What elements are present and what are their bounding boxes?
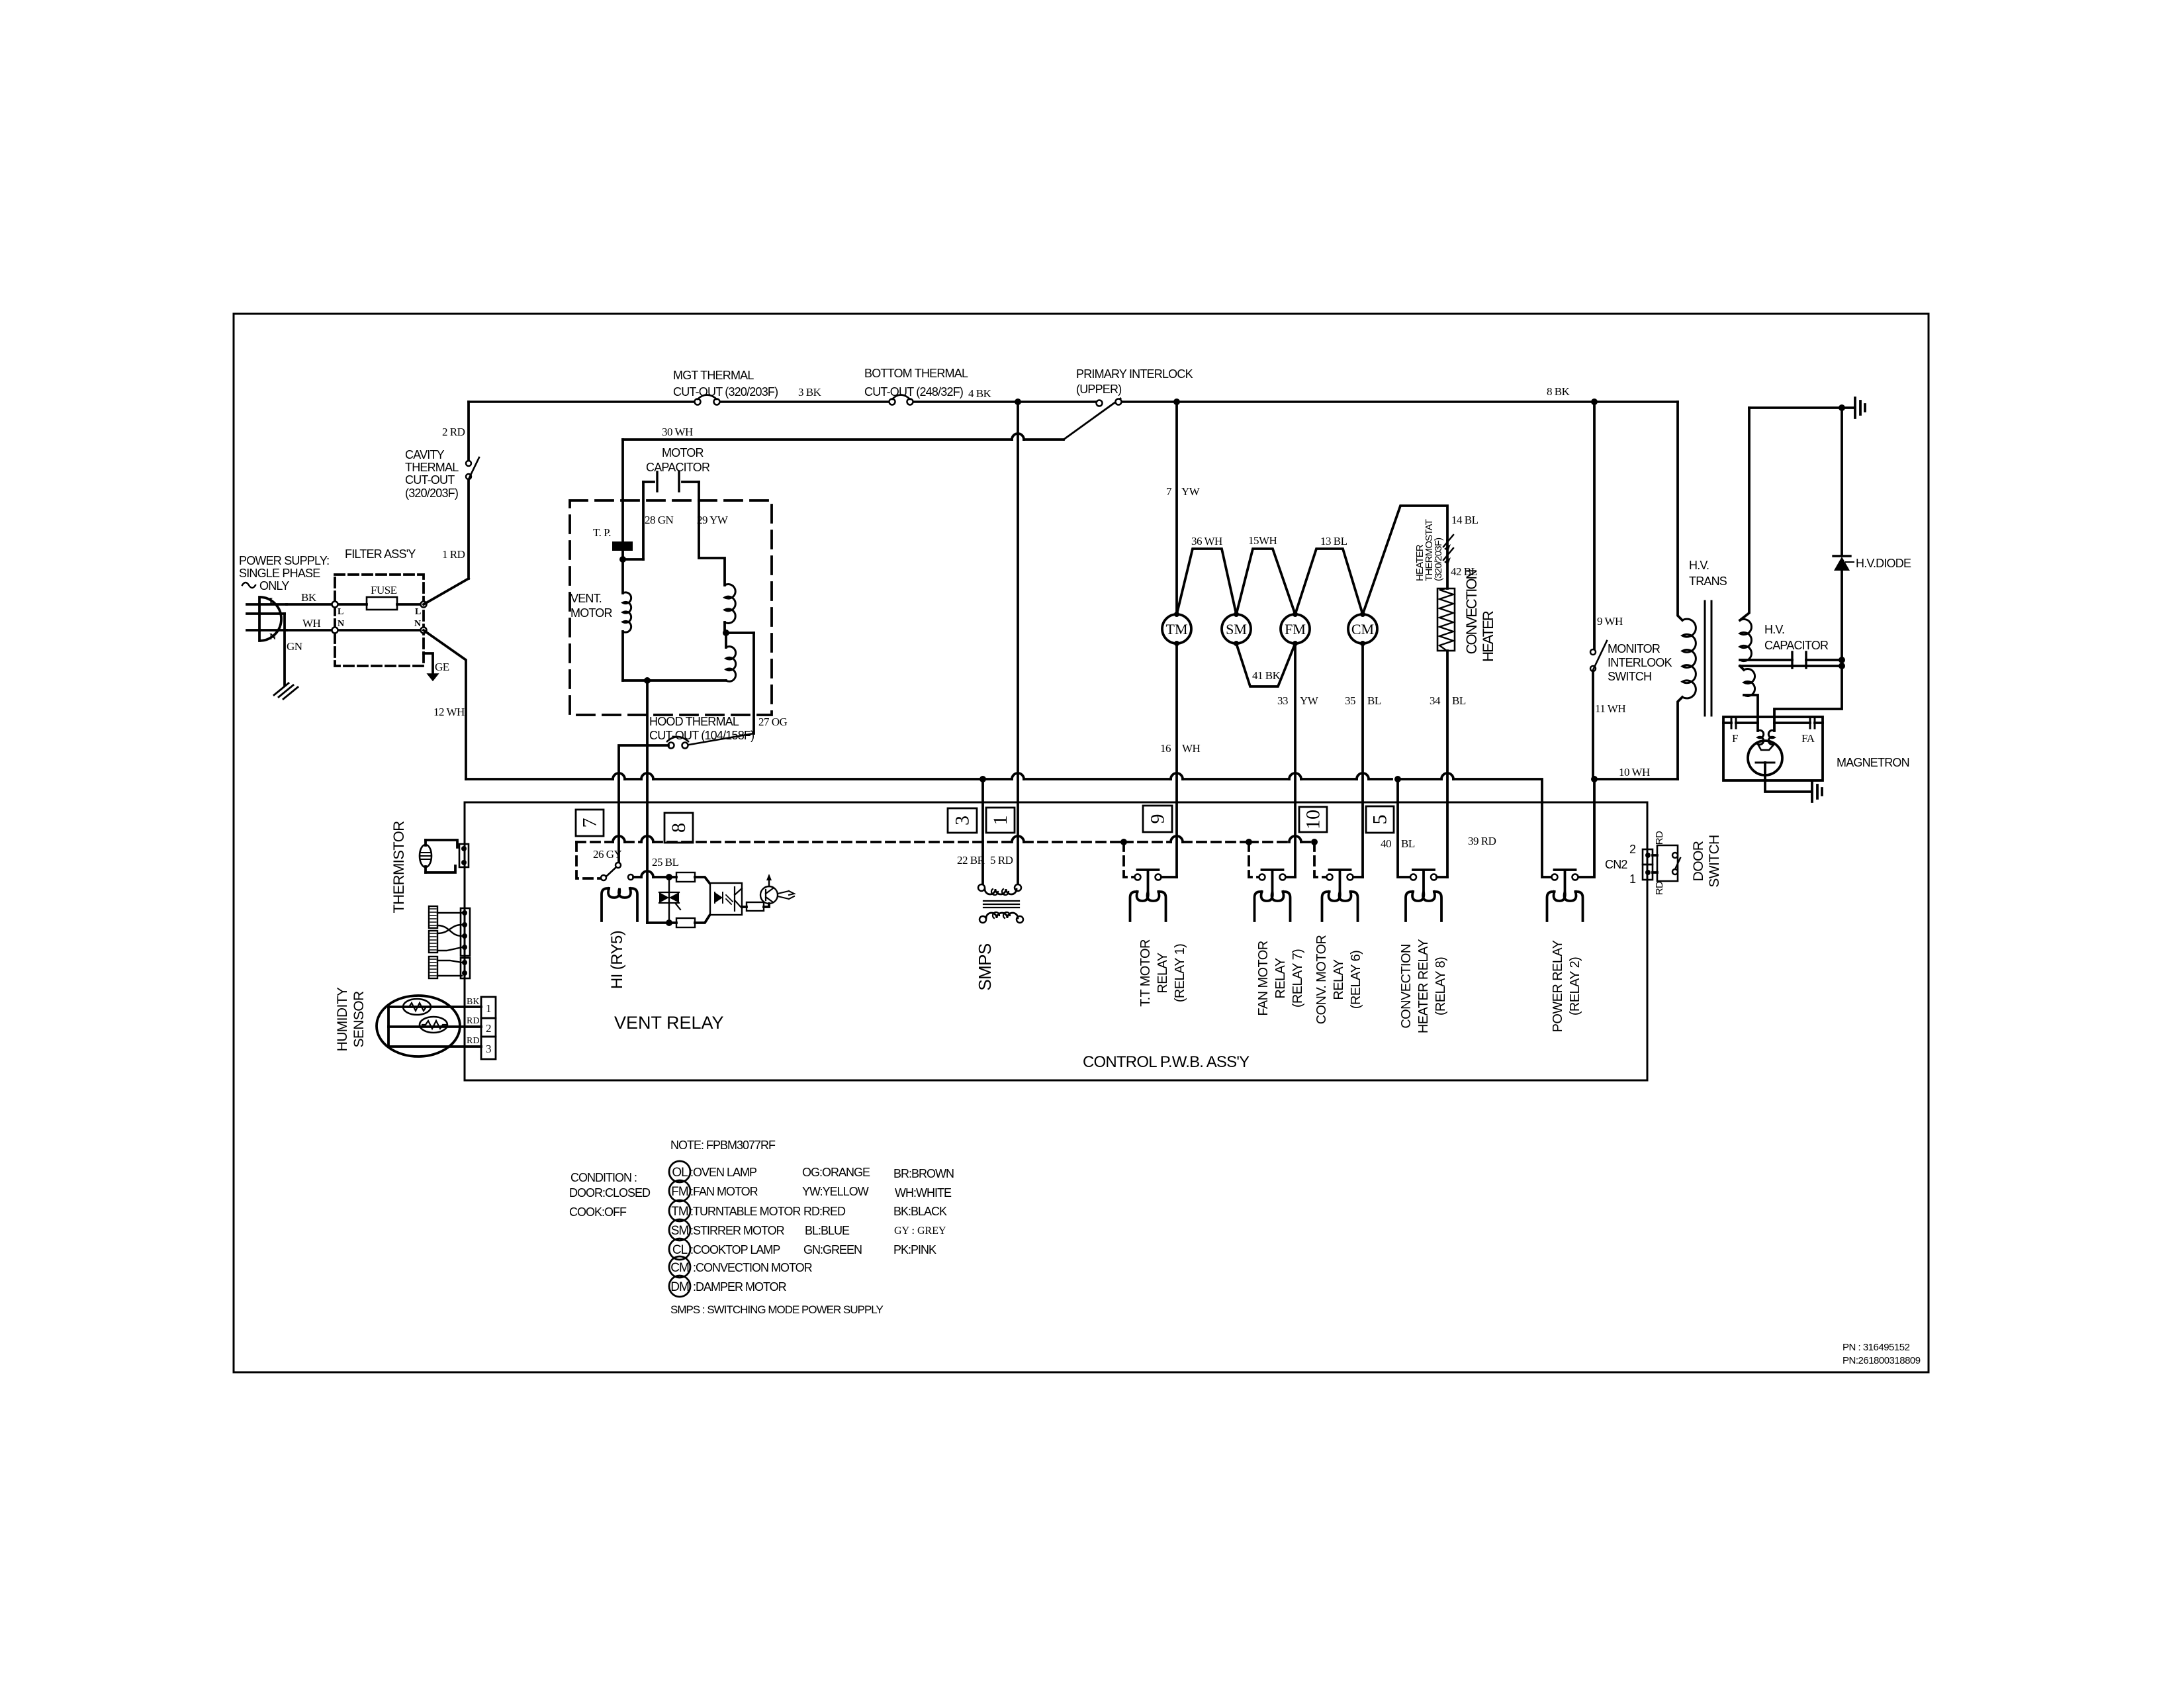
svg-text:DOOR: DOOR [1691,841,1706,881]
wire 5 RD [990,402,1018,884]
svg-text:25 BL: 25 BL [652,856,679,868]
thermistor RT1 [420,840,469,872]
legend condition [569,1171,651,1219]
connector box 1 [986,808,1015,833]
svg-text:CUT-OUT (320/203F): CUT-OUT (320/203F) [673,385,778,399]
svg-text::TURNTABLE MOTOR: :TURNTABLE MOTOR [690,1205,801,1218]
wire 15WH [1236,534,1295,614]
label 28 GN [645,514,674,526]
svg-text:PRIMARY INTERLOCK: PRIMARY INTERLOCK [1076,367,1193,381]
svg-text:(320/203F): (320/203F) [1433,538,1444,581]
legend SMPS [670,1303,883,1316]
svg-text:L: L [338,607,343,617]
connector box 5 [1366,806,1394,833]
svg-text:MONITOR: MONITOR [1608,642,1661,655]
svg-text:(RELAY 6): (RELAY 6) [1349,951,1363,1009]
svg-text:PK:PINK: PK:PINK [893,1243,936,1256]
svg-text:YW: YW [1181,485,1201,498]
svg-text:MGT THERMAL: MGT THERMAL [673,369,754,382]
svg-text:(UPPER): (UPPER) [1076,383,1121,396]
dashed branch 26GY [576,842,600,878]
svg-text:HEATER RELAY: HEATER RELAY [1416,939,1431,1033]
legend FM [669,1180,758,1201]
svg-text:H.V.DIODE: H.V.DIODE [1856,557,1911,570]
svg-text:THERMAL: THERMAL [405,461,459,474]
svg-text:36 WH: 36 WH [1191,535,1222,547]
wire 30 WH [623,426,1064,440]
fan motor relay [1255,870,1296,921]
svg-text:T.T MOTOR: T.T MOTOR [1138,939,1153,1007]
label SMPS [975,943,995,991]
svg-text:OG:ORANGE: OG:ORANGE [802,1166,870,1179]
label 1 RD [442,548,465,561]
vent motor dashed box [570,500,772,715]
svg-text:CUT-OUT (104/158F): CUT-OUT (104/158F) [649,729,754,742]
wire lower bus 1177 [466,773,1542,802]
svg-text:HEATER: HEATER [1480,611,1496,662]
svg-text::STIRRER MOTOR: :STIRRER MOTOR [690,1224,785,1237]
svg-text:29 YW: 29 YW [697,514,729,526]
svg-text:N: N [414,619,421,629]
convection heater relay [1406,870,1447,921]
svg-text:2: 2 [486,1022,491,1035]
svg-text:SM: SM [671,1224,689,1238]
wire 25 BL drop [652,856,679,868]
label MGT THERMAL CUT-OUT [673,369,778,399]
svg-text:3: 3 [952,816,974,825]
wire 2 RD riser [424,402,469,604]
wire WH plug to filter [287,617,335,630]
control PWB assy box [465,802,1647,1080]
svg-text:RD:RED: RD:RED [803,1205,846,1218]
svg-text:FM: FM [1285,621,1306,637]
wire 41 BK [1236,643,1295,686]
label H.V. CAPACITOR [1764,623,1829,652]
svg-text:(320/203F): (320/203F) [405,487,458,500]
svg-text:COOK:OFF: COOK:OFF [569,1205,627,1219]
svg-text::DAMPER MOTOR: :DAMPER MOTOR [690,1280,787,1293]
svg-text:FUSE: FUSE [371,584,397,596]
svg-text:RD: RD [467,1036,479,1046]
svg-text:CONVECTION: CONVECTION [1463,570,1480,655]
resistor R3 [742,902,769,911]
door switch [1653,831,1680,895]
svg-text:NOTE: FPBM3077RF: NOTE: FPBM3077RF [670,1139,776,1152]
wire 7 YW TM riser [1166,402,1201,614]
svg-text:2: 2 [1629,843,1636,856]
label FILTER ASSY [345,547,416,561]
node L right [415,602,427,618]
svg-text:5 RD: 5 RD [990,854,1013,867]
svg-text:7: 7 [1166,485,1172,498]
fuse F1 [335,584,424,610]
svg-text:F: F [1732,732,1738,745]
svg-text:SMPS : SWITCHING MODE POWER SU: SMPS : SWITCHING MODE POWER SUPPLY [670,1303,883,1316]
wire motor common [623,677,726,923]
svg-text:30 WH: 30 WH [662,426,693,438]
label 42 BL [1451,565,1478,578]
label VENT RELAY [614,1013,724,1033]
svg-text:GN: GN [287,640,302,653]
svg-text:16: 16 [1160,742,1171,755]
svg-text:3: 3 [486,1043,491,1055]
svg-text:BK: BK [467,997,479,1007]
wire 14 BL to heater [1363,506,1479,614]
svg-text:9 WH: 9 WH [1597,615,1623,628]
wire top bus 607 [469,400,1678,403]
label 3 BK [798,386,822,399]
wire 39 RD drop [1468,802,1551,877]
svg-text:VENT.: VENT. [570,592,602,605]
triac Q1 [659,877,680,923]
vent relay drive rail bottom [647,919,676,926]
svg-text:9: 9 [1147,814,1169,824]
humidity connector 1 2 3 [467,997,496,1059]
svg-text:ONLY: ONLY [259,579,289,592]
svg-text:CONVECTION: CONVECTION [1399,944,1414,1028]
svg-text:RD: RD [1654,881,1665,895]
svg-text:GY : GREY: GY : GREY [894,1225,946,1237]
label 4 BK [968,387,992,400]
dashed control bus [576,841,613,843]
label MOTOR CAPACITOR [646,446,710,474]
magnetron box [1723,717,1823,780]
svg-text:BL: BL [1452,694,1466,707]
connector CN2 [1605,843,1653,886]
svg-text:CL: CL [672,1243,688,1257]
monitor interlook switch [1590,641,1607,671]
wire 26 GY drop [593,848,622,861]
resistor R2 [676,915,709,927]
svg-text:GE: GE [435,661,449,673]
label H.V. TRANS [1689,559,1727,588]
svg-text:CONV. MOTOR: CONV. MOTOR [1314,935,1329,1025]
svg-text:3 BK: 3 BK [798,386,822,399]
TT motor relay contacts [1130,870,1177,921]
svg-text:BL: BL [1367,694,1381,707]
wire 16 WH TM drop [1160,643,1201,877]
hood thermal cut-out switch [619,733,754,863]
svg-text:T. P.: T. P. [593,526,611,539]
svg-text:34: 34 [1430,694,1441,707]
svg-text:POWER RELAY: POWER RELAY [1551,940,1565,1032]
node monitor branch [1591,399,1598,405]
wire GN to ground [285,614,302,685]
conv motor relay [1322,870,1363,921]
svg-text:TRANS: TRANS [1689,575,1727,588]
node TM top bus [1173,399,1180,405]
svg-text:BOTTOM THERMAL: BOTTOM THERMAL [864,367,968,380]
svg-text:(RELAY 1): (RELAY 1) [1173,944,1187,1002]
svg-text:12 WH: 12 WH [433,706,465,718]
ground GE [428,674,438,680]
svg-text:BK: BK [301,591,317,604]
optocoupler U2 [710,883,742,915]
svg-text:SINGLE PHASE: SINGLE PHASE [239,567,320,580]
svg-text:33: 33 [1277,694,1288,707]
svg-text:SWITCH: SWITCH [1608,670,1651,683]
svg-text:INTERLOOK: INTERLOOK [1608,656,1672,669]
label 34 BL [1430,694,1466,707]
svg-text:PN:261800318809: PN:261800318809 [1843,1355,1921,1366]
svg-text:BR:BROWN: BR:BROWN [893,1167,954,1180]
label CONVECTION HEATER RELAY [1399,939,1448,1033]
legend OL [669,1161,757,1182]
node N left [332,619,345,633]
svg-text:TM: TM [671,1205,688,1219]
svg-text:YW:YELLOW: YW:YELLOW [802,1185,869,1198]
dashed branch relay1 [1124,842,1133,877]
node 5RD top [1015,399,1021,405]
vent relay drive rail top [628,871,676,880]
svg-text:HI (RY5): HI (RY5) [608,931,626,989]
transistor Q2 [760,874,794,904]
wire 12 WH riser [424,630,466,779]
svg-text:CONDITION :: CONDITION : [570,1171,637,1184]
cavity thermal cut-out switch [466,457,479,479]
label HI (RY5) [608,931,626,989]
filter assembly box [335,575,424,666]
border frame [234,314,1929,1372]
label POWER RELAY [1551,940,1582,1032]
svg-text:MAGNETRON: MAGNETRON [1837,756,1909,769]
svg-text:35: 35 [1345,694,1355,707]
svg-text:BL: BL [1401,837,1415,850]
svg-text:MOTOR: MOTOR [662,446,704,459]
heater thermostat [1443,535,1453,588]
vent motor main winding L1 [623,592,631,680]
legend SM [669,1219,785,1241]
switch bottom thermal cut-out [889,395,913,405]
convection heater element [1437,588,1455,877]
resistor R1 [676,872,709,883]
power supply plug P1 [247,596,287,642]
legend colors column 2 [893,1167,954,1256]
wire 33 YW FM drop [1277,643,1319,877]
label TT MOTOR RELAY [1138,939,1187,1007]
svg-text:7: 7 [579,818,601,828]
label HUMIDITY SENSOR [335,987,367,1051]
svg-text:H.V.: H.V. [1689,559,1709,572]
ground magnetron [1812,782,1822,802]
svg-text:40: 40 [1381,837,1391,850]
svg-text:11 WH: 11 WH [1595,702,1625,715]
svg-text:2 RD: 2 RD [442,426,465,438]
connector box 10 [1299,807,1327,832]
svg-text:BK:BLACK: BK:BLACK [893,1205,947,1218]
legend CM [669,1256,813,1278]
svg-text:VENT RELAY: VENT RELAY [614,1013,724,1033]
wire filament link [1740,663,1845,669]
svg-text:39 RD: 39 RD [1468,835,1496,847]
label H.V.DIODE [1846,557,1911,570]
svg-text:CM: CM [1351,621,1374,637]
svg-text:SMPS: SMPS [975,943,995,991]
dashed branch relay6 [1314,842,1325,877]
label CAVITY THERMAL CUT-OUT [405,448,459,500]
magnetron feedthrough cap FA [1774,718,1823,745]
node L left [332,602,344,618]
node diode top [1839,404,1845,411]
legend TM [669,1200,801,1221]
motor capacitor C1 [643,472,725,585]
legend note [670,1139,776,1152]
svg-text:L: L [269,596,275,606]
connector box 8 [664,813,693,843]
svg-text:FAN MOTOR: FAN MOTOR [1256,941,1271,1015]
wire 40 BL [1381,779,1415,877]
humidity sensor [377,996,481,1056]
svg-text:RD: RD [1654,831,1665,845]
svg-text:H.V.: H.V. [1764,623,1784,636]
wire 10 WH [1591,766,1678,782]
svg-text:CN2: CN2 [1605,858,1627,871]
svg-text:(RELAY 7): (RELAY 7) [1291,949,1305,1008]
svg-text::CONVECTION MOTOR: :CONVECTION MOTOR [690,1261,813,1274]
vent relay switch [601,863,621,880]
svg-text::COOKTOP LAMP: :COOKTOP LAMP [690,1243,780,1256]
wire main winding riser [621,440,624,593]
svg-text:BL:BLUE: BL:BLUE [805,1224,850,1237]
svg-text:13 BL: 13 BL [1320,535,1347,547]
connector CN3 pins [461,908,470,978]
svg-text:4 BK: 4 BK [968,387,992,400]
wire secondary to ground [1749,406,1853,409]
label MONITOR INTERLOOK SWITCH [1608,642,1672,683]
label DOOR SWITCH [1691,835,1722,887]
wire 36 WH [1177,535,1236,614]
wire 11 WH [1593,671,1625,779]
label VENT. MOTOR [570,592,612,620]
HV transformer T1 [1678,402,1758,779]
svg-text:1 RD: 1 RD [442,548,465,561]
svg-text:RELAY: RELAY [1332,959,1346,1000]
label 29 YW [697,514,729,526]
svg-text::FAN MOTOR: :FAN MOTOR [690,1185,758,1198]
wire 13 BL [1295,535,1363,614]
svg-text:PN : 316495152: PN : 316495152 [1843,1342,1910,1353]
SMPS transformer T2 [978,884,1023,923]
wire 35 BL CM drop [1345,643,1381,877]
motor CM [1348,612,1377,646]
svg-text:41 BK: 41 BK [1252,669,1281,682]
svg-text:WH: WH [1182,742,1201,755]
svg-text:15WH: 15WH [1248,534,1277,547]
wire 27 OG [754,633,788,733]
magnetron filament chokes [1758,717,1774,745]
svg-text:DM: DM [670,1280,689,1294]
motor FM [1281,612,1310,646]
svg-text:DOOR:CLOSED: DOOR:CLOSED [569,1186,651,1199]
label 2 RD [442,426,465,438]
vent motor aux winding top L2 [725,585,735,630]
svg-text:RD: RD [467,1016,479,1026]
label BOTTOM THERMAL CUT-OUT [864,367,968,399]
svg-text:CUT-OUT (248/32F): CUT-OUT (248/32F) [864,385,963,399]
label POWER SUPPLY [239,554,329,592]
relay coil HI RY5 [602,888,637,921]
label MAGNETRON [1837,756,1909,769]
power relay [1547,870,1583,921]
label PRIMARY INTERLOCK [1076,367,1193,396]
magnetron tube [1748,741,1782,775]
wire magnetron ground [1765,775,1810,792]
legend CL [669,1239,780,1260]
svg-text:TM: TM [1166,621,1188,637]
svg-text:10: 10 [1302,810,1324,829]
svg-text:28 GN: 28 GN [645,514,674,526]
label THERMISTOR [390,821,407,913]
magnetron feedthrough cap F [1723,718,1758,745]
wire 22 BR [957,779,985,884]
node TP junction [619,556,643,563]
svg-text:26 GY: 26 GY [593,848,622,861]
connector box 9 [1143,806,1172,832]
svg-text:POWER SUPPLY:: POWER SUPPLY: [239,554,329,567]
svg-text:8: 8 [668,823,690,833]
svg-text:22 BR: 22 BR [957,854,985,867]
label HOOD THERMAL CUT-OUT [649,715,754,742]
svg-text:HOOD THERMAL: HOOD THERMAL [649,715,739,728]
svg-text:YW: YW [1300,694,1319,707]
label CONV MOTOR RELAY [1314,935,1363,1025]
svg-text:(RELAY 2): (RELAY 2) [1568,957,1582,1015]
svg-text:N: N [338,619,344,629]
legend colors column 1 [802,1166,870,1256]
svg-text:CAVITY: CAVITY [405,448,445,461]
svg-text:OL: OL [672,1166,688,1180]
svg-text:10 WH: 10 WH [1619,766,1650,778]
svg-text:SENSOR: SENSOR [351,991,367,1048]
svg-text:1: 1 [1629,872,1636,886]
connector box 3 [948,808,977,833]
svg-text:SM: SM [1226,621,1247,637]
label 8 BK [1547,385,1570,398]
svg-text:FA: FA [1801,732,1815,745]
svg-text:14 BL: 14 BL [1451,514,1479,526]
svg-text:(RELAY 8): (RELAY 8) [1433,957,1448,1015]
switch primary interlock [1064,399,1122,440]
label HEATER THERMOSTAT [1414,519,1444,581]
svg-text:CAPACITOR: CAPACITOR [1764,639,1829,652]
svg-text:FM: FM [671,1185,688,1199]
motor SM [1222,612,1251,646]
dashed branch relay7 [1249,842,1258,877]
svg-text:MOTOR: MOTOR [570,606,612,620]
wire N inside filter [335,629,424,632]
label FAN MOTOR RELAY [1256,941,1305,1015]
part numbers [1843,1342,1921,1366]
svg-text:GN:GREEN: GN:GREEN [803,1243,862,1256]
svg-text:1: 1 [486,1002,491,1015]
svg-text:CUT-OUT: CUT-OUT [405,473,455,487]
wire BK plug to filter [287,591,335,604]
wire monitor to power relay [1578,779,1594,877]
node aux tap [723,630,754,636]
svg-text:N: N [269,632,276,642]
svg-text:CONTROL P.W.B. ASS'Y: CONTROL P.W.B. ASS'Y [1083,1053,1250,1071]
wire 9 WH monitor riser [1594,402,1623,649]
svg-text:WH:WHITE: WH:WHITE [895,1186,952,1199]
svg-text:HUMIDITY: HUMIDITY [335,987,350,1051]
ground HV top [1855,398,1865,418]
wire diode to magnetron [1774,666,1842,717]
svg-text:1: 1 [989,816,1011,825]
node N right [414,619,427,633]
label CONTROL PWB [1083,1053,1250,1071]
svg-text:L: L [415,607,421,617]
label CONVECTION HEATER [1463,570,1496,662]
